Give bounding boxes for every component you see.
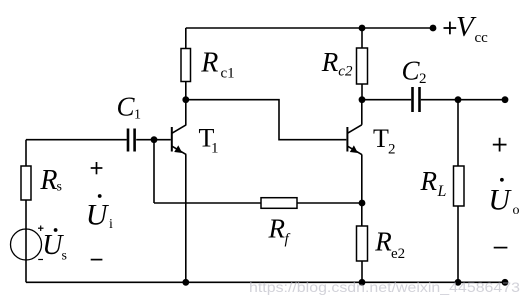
wire feedback horizontal right: [297, 202, 362, 204]
wire Rc2 bottom lead: [361, 84, 363, 100]
node T1 base junction: [151, 136, 158, 143]
wire left branch through source: [25, 200, 27, 282]
svg-text:s: s: [57, 180, 62, 195]
label RL: [420, 166, 447, 200]
label Rc1: [200, 48, 234, 82]
resistor RL: [454, 166, 465, 206]
wire bottom rail: [26, 281, 505, 283]
wire RL bottom lead: [457, 206, 459, 282]
wire feedback vertical from base node: [153, 140, 155, 203]
node T2 collector junction: [359, 96, 366, 103]
label Ui plus: [91, 162, 103, 174]
label Rc2: [321, 47, 353, 80]
node RL top junction: [455, 96, 462, 103]
svg-text:o: o: [513, 203, 520, 218]
svg-text:1: 1: [211, 141, 219, 157]
svg-text:i: i: [109, 217, 113, 232]
wire T1 collector vertical: [185, 100, 187, 125]
svg-text:2: 2: [388, 141, 396, 157]
svg-text:C: C: [117, 91, 136, 121]
label Rs: [39, 165, 62, 196]
node supply above Rc2: [359, 25, 366, 32]
wire output row left of C2: [362, 99, 411, 101]
label Ui minus: [91, 259, 103, 261]
label Us: [42, 228, 67, 263]
svg-text:1: 1: [134, 108, 141, 123]
resistor Rc2: [357, 48, 368, 84]
label Ui: [86, 194, 113, 232]
label Uo: [488, 178, 519, 218]
label Rf: [268, 214, 291, 248]
resistor Rf: [261, 198, 297, 209]
wire feedback horizontal left: [154, 202, 261, 204]
resistor Rc1: [181, 49, 191, 82]
wire T2 emitter vertical: [361, 154, 363, 226]
wire Rc1 bottom lead: [185, 82, 187, 100]
wire T2 collector vertical: [361, 100, 363, 125]
wire Rc1 top lead: [185, 28, 187, 49]
svg-text:cc: cc: [475, 30, 489, 46]
transistor T1: [172, 125, 186, 155]
capacitor C2: [413, 87, 420, 112]
svg-text:L: L: [437, 183, 447, 200]
wire left branch top: [25, 140, 27, 166]
wire Rc2 top lead: [361, 28, 363, 48]
svg-text:R: R: [200, 48, 218, 79]
wire top supply rail: [186, 27, 433, 29]
svg-text:U: U: [86, 198, 110, 231]
label T2: [373, 124, 396, 158]
resistor Re2: [357, 226, 368, 261]
transistor T2: [347, 125, 361, 155]
svg-text:R: R: [321, 47, 339, 77]
node Vcc terminal: [430, 25, 437, 32]
node T1 emitter bottom: [182, 279, 189, 286]
wire output row right of C2: [421, 99, 505, 101]
svg-text:c1: c1: [221, 65, 235, 81]
node T1 collector junction: [182, 96, 189, 103]
node Re2 bottom: [359, 279, 366, 286]
resistor Rs: [21, 166, 31, 200]
wire T1 base lead: [136, 139, 171, 141]
wire Re2 bottom lead: [361, 261, 363, 282]
svg-text:R: R: [420, 166, 438, 196]
label Uo plus: [493, 138, 507, 152]
label Us polarity marks: [38, 226, 44, 260]
source Us circle: [11, 229, 42, 260]
wire input row left of C1: [26, 139, 127, 141]
svg-text:f: f: [285, 232, 291, 248]
node T2 emitter junction: [359, 200, 366, 207]
wire interstage coupling (T1 collector to T2 base): [186, 100, 346, 140]
node output terminal bottom: [502, 279, 509, 286]
label C1: [117, 91, 142, 122]
svg-text:https://blog.csdn.net/weixin_4: https://blog.csdn.net/weixin_44586473: [249, 279, 520, 295]
wire T1 emitter vertical: [185, 154, 187, 282]
svg-text:R: R: [39, 165, 57, 196]
node output terminal top: [502, 96, 509, 103]
label C2: [402, 55, 427, 87]
label Re2: [374, 227, 405, 263]
svg-text:s: s: [62, 249, 67, 264]
wire RL top lead: [457, 100, 459, 166]
svg-text:C: C: [402, 55, 421, 85]
svg-text:c2: c2: [338, 64, 353, 80]
svg-text:T: T: [373, 124, 389, 153]
node RL bottom junction: [455, 279, 462, 286]
label T1: [199, 123, 219, 156]
svg-text:R: R: [374, 227, 392, 257]
svg-text:2: 2: [419, 71, 427, 87]
svg-text:U: U: [488, 183, 512, 216]
label Uo minus: [494, 247, 508, 249]
label +Vcc: [444, 11, 489, 46]
svg-text:e2: e2: [391, 246, 405, 262]
capacitor C1: [128, 129, 135, 152]
svg-text:R: R: [268, 214, 286, 244]
